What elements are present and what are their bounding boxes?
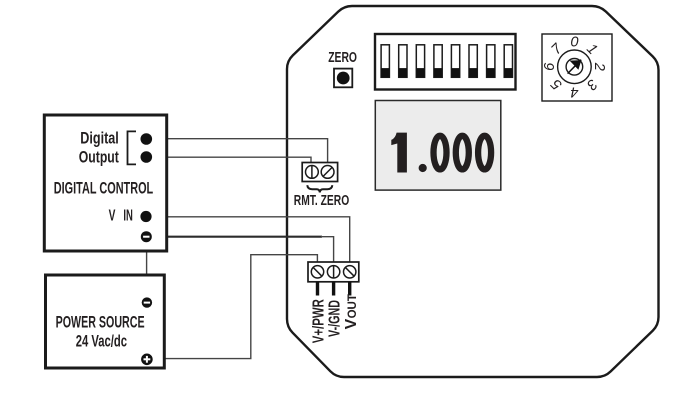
- rotary switch S2: [542, 34, 612, 101]
- bracket: [128, 131, 137, 164]
- pin V+/PWR: [316, 282, 319, 296]
- terminal V IN: [140, 211, 151, 222]
- terminal block TB1 (3 screws): [308, 262, 359, 282]
- wire W5 V- down to power source minus: [146, 239, 148, 300]
- display: [375, 101, 501, 191]
- svg-text:Digital: Digital: [80, 129, 119, 148]
- wire W6 power source plus to V+/PWR screw: [148, 255, 317, 359]
- svg-text:IN: IN: [123, 208, 132, 225]
- svg-text:VOUT: VOUT: [343, 294, 360, 329]
- underbrace: [307, 185, 332, 192]
- box DIGITAL CONTROL: [44, 115, 166, 251]
- svg-text:RMT. ZERO: RMT. ZERO: [294, 193, 349, 209]
- svg-text:2: 2: [591, 62, 607, 71]
- zero pushbutton: [334, 69, 352, 88]
- svg-text:DIGITAL CONTROL: DIGITAL CONTROL: [54, 179, 153, 198]
- svg-text:4: 4: [570, 83, 578, 99]
- svg-text:6: 6: [542, 62, 558, 71]
- terminal digital output 2: [141, 151, 153, 163]
- svg-text:V-/GND: V-/GND: [327, 300, 344, 337]
- terminal V- (minus on digital control): [141, 231, 152, 242]
- terminal plus power source: [141, 354, 153, 366]
- svg-text:V: V: [109, 208, 116, 225]
- pin VOUT: [348, 282, 351, 296]
- wire W3 V IN to VOUT screw: [146, 217, 350, 263]
- svg-text:Output: Output: [79, 147, 119, 166]
- svg-text:ZERO: ZERO: [328, 50, 357, 66]
- svg-text:POWER SOURCE: POWER SOURCE: [56, 312, 145, 331]
- terminal minus power source: [142, 297, 152, 307]
- device outline octagon: [287, 6, 659, 377]
- wire W4 V- to V-/GND screw: [146, 236, 322, 238]
- wire W1 digital output 1 to RMT.ZERO right screw: [146, 139, 327, 166]
- wire W2 digital output 2 to RMT.ZERO left screw: [146, 157, 311, 166]
- svg-text:0: 0: [570, 34, 578, 50]
- terminal block RMT ZERO: [302, 163, 337, 182]
- terminal digital output 1: [141, 133, 153, 145]
- label V IN: [109, 208, 133, 225]
- pin V-/GND: [332, 282, 335, 296]
- svg-text:V+/PWR: V+/PWR: [310, 299, 327, 344]
- DIP switch S1: [375, 34, 516, 90]
- svg-text:24 Vac/dc: 24 Vac/dc: [76, 331, 127, 350]
- box POWER SOURCE: [46, 275, 165, 368]
